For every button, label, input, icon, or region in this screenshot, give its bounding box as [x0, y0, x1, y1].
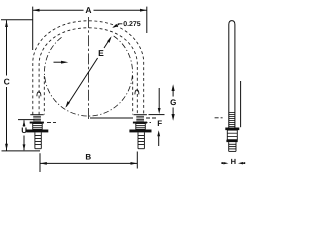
dimension F arrow up [157, 130, 160, 136]
right plate bar [129, 130, 151, 133]
svg-text:G: G [170, 98, 176, 107]
dimension B arrow left [40, 162, 47, 165]
dimension H arrow left-pointing [238, 162, 243, 164]
dimension B extension right [136, 152, 138, 169]
U-bolt inner profile [39, 28, 137, 115]
side view nut [227, 130, 237, 140]
right nut [136, 124, 146, 130]
saddle dash segment beyond right leg [146, 117, 156, 119]
side view thread hatch [229, 113, 235, 127]
left stud threads [35, 132, 41, 148]
leader 0.275 arrow [112, 24, 118, 28]
left washer [30, 122, 44, 124]
leader arrow inside circle [54, 61, 63, 63]
U-bolt outer profile [33, 21, 144, 115]
dimension H left segment [222, 162, 226, 164]
left seat line [30, 114, 43, 116]
svg-text:U: U [21, 126, 27, 135]
dimension F bottom shaft [158, 135, 160, 146]
dimension B extension left [39, 153, 41, 172]
vertical centerline [88, 17, 90, 120]
side view stud threads [229, 142, 236, 151]
dimension A extension line left [32, 7, 34, 50]
dimension A arrow right [140, 9, 147, 12]
dimension G top shaft [172, 90, 174, 97]
side view washer [225, 128, 239, 131]
dimension C bottom extension line [2, 150, 41, 152]
dimension U arrow up [23, 120, 26, 126]
svg-text:E: E [98, 48, 104, 58]
svg-text:H: H [231, 157, 236, 166]
dimension U top extension [18, 119, 35, 121]
thread runout arch right leg [135, 90, 139, 94]
dimension A line [33, 9, 84, 11]
dimension A extension line right [146, 7, 148, 33]
left plate bar [26, 130, 48, 133]
dimension E line upper segment [104, 38, 111, 48]
saddle wall left (phantom) [43, 76, 45, 115]
left nut [33, 124, 43, 130]
leader 0.275 dash [118, 23, 123, 25]
dimension F arrow down [158, 108, 161, 114]
dimension B arrow right [131, 162, 138, 165]
dimension C top extension line [1, 19, 33, 21]
pipe circle (phantom) [44, 36, 132, 116]
side view rod outline [229, 21, 235, 128]
dimension B line [40, 162, 137, 164]
side view saddle dash [215, 117, 223, 119]
svg-text:F: F [157, 119, 162, 128]
dimension U line top [23, 120, 25, 127]
dimension E arrow upper [107, 36, 112, 43]
right thread hatch [136, 116, 144, 121]
dimension E arrow lower [65, 101, 70, 108]
saddle dash segment lower right [144, 121, 151, 123]
side view lower bar [226, 140, 237, 142]
dimension U arrow down [23, 144, 26, 150]
saddle dash-dot line right of center [90, 117, 133, 119]
right seat line [134, 114, 147, 116]
svg-text:C: C [4, 77, 10, 87]
saddle dash segment lower left [47, 121, 56, 123]
dimension E line lower segment [66, 58, 97, 107]
left thread hatch [33, 116, 41, 121]
leader 0.275 line [113, 24, 119, 27]
right washer [133, 122, 147, 124]
dimension C arrow up [5, 20, 8, 27]
dimension C line [6, 20, 8, 75]
dimension H right segment [241, 162, 245, 164]
thread runout arch left leg [37, 92, 41, 96]
dimension F top shaft [158, 88, 160, 111]
saddle wall right (phantom) [132, 76, 134, 115]
dimension H end dots [221, 162, 223, 164]
dimension G arrow down [172, 114, 175, 121]
dimension H arrow right-pointing [223, 162, 228, 164]
dimension F top extension [149, 114, 165, 116]
svg-text:B: B [85, 152, 91, 161]
dimension C arrow down [5, 144, 8, 151]
svg-text:A: A [85, 5, 91, 15]
dimension G bottom shaft [172, 108, 174, 116]
side view rear line [240, 81, 242, 127]
svg-text:0.275: 0.275 [123, 21, 141, 28]
dimension U line bottom [23, 136, 25, 151]
right stud threads [138, 132, 144, 148]
dimension A arrow left [33, 9, 40, 12]
dimension G arrow up [172, 84, 175, 91]
